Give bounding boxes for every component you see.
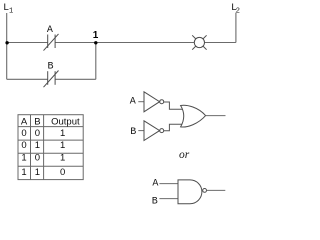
node 1 junction dot	[94, 41, 97, 44]
NAND gate U4	[178, 180, 202, 204]
wire inverter A input stub	[138, 101, 144, 103]
wire NAND input A	[159, 183, 178, 185]
contact A (normally-closed)	[44, 34, 59, 51]
wire left rail L1	[6, 13, 8, 79]
junction dot at left rail	[5, 41, 8, 44]
svg-text:B: B	[130, 127, 136, 138]
svg-text:B: B	[48, 62, 54, 73]
wire inverter B input stub	[138, 130, 144, 132]
svg-text:1: 1	[60, 128, 65, 139]
svg-text:0: 0	[60, 167, 65, 178]
contact B (normally-closed)	[44, 71, 59, 88]
svg-text:A: A	[47, 25, 53, 36]
inverter U2 output bubble	[160, 129, 164, 133]
wire main rung segment 1 (rail to contact A)	[7, 42, 48, 44]
table text	[21, 117, 80, 178]
node L2 label	[231, 3, 240, 15]
wire main rung segment 2 (contact A to lamp)	[55, 42, 194, 44]
wire branch B segment 1 (rail to contact B)	[7, 78, 48, 80]
svg-text:0: 0	[35, 128, 40, 139]
lamp (output)	[192, 35, 206, 49]
wire U2 output jog to OR input	[164, 124, 182, 131]
svg-text:0: 0	[21, 128, 26, 139]
wire right rail L2	[235, 13, 237, 43]
table frame	[18, 115, 83, 180]
wire branch vertical at node 1	[95, 43, 97, 80]
svg-text:0: 0	[35, 153, 40, 164]
node L1 label	[3, 3, 13, 15]
svg-text:Output: Output	[51, 117, 80, 128]
svg-text:0: 0	[21, 140, 26, 151]
svg-text:B: B	[34, 117, 40, 128]
OR gate U3	[181, 105, 206, 127]
wire branch B segment 2 (contact B to node 1)	[55, 78, 96, 80]
svg-text:1: 1	[60, 140, 65, 151]
wire OR output	[206, 115, 226, 117]
svg-text:1: 1	[21, 153, 26, 164]
svg-text:1: 1	[21, 167, 26, 178]
wire NAND output	[207, 189, 226, 191]
svg-text:B: B	[152, 197, 158, 207]
NAND output bubble	[203, 189, 207, 193]
svg-text:or: or	[179, 149, 190, 161]
wire U1 output jog to OR input	[164, 102, 183, 109]
wire main rung segment 3 (lamp to right rail)	[205, 42, 236, 44]
svg-text:A: A	[152, 179, 158, 190]
wire NAND input B	[159, 198, 178, 200]
svg-text:A: A	[21, 117, 28, 128]
svg-text:1: 1	[60, 153, 65, 164]
inverter U2 (NOT gate B)	[144, 121, 160, 141]
svg-text:1: 1	[35, 140, 40, 151]
svg-text:1: 1	[93, 30, 99, 41]
inverter U1 (NOT gate A)	[144, 92, 160, 112]
svg-text:A: A	[130, 97, 136, 108]
svg-text:1: 1	[35, 167, 40, 178]
inverter U1 output bubble	[160, 100, 164, 104]
svg-text:1: 1	[9, 7, 13, 15]
